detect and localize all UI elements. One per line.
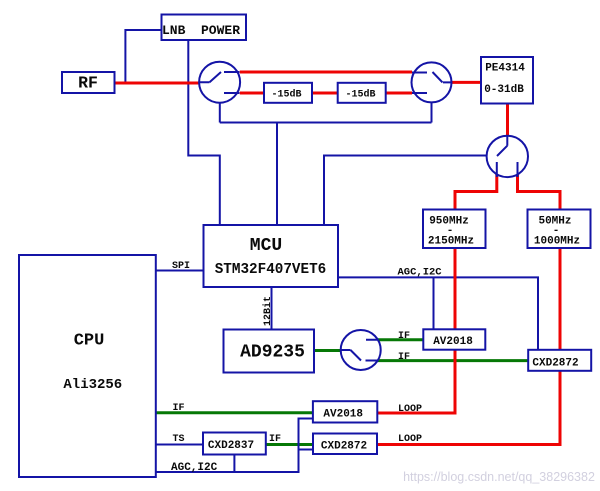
svg-text:AGC,I2C: AGC,I2C xyxy=(398,267,443,279)
svg-text:IF: IF xyxy=(398,352,410,363)
svg-text:-15dB: -15dB xyxy=(271,89,301,101)
wire AGC,I2C CPU to CXD2837, AV2018 and CXD2872 xyxy=(156,419,313,473)
block CPU Ali3256 xyxy=(19,255,156,477)
wire SW1 to SW2 direct path (red) xyxy=(240,71,412,74)
svg-text:LOOP: LOOP xyxy=(398,434,422,445)
svg-text:AV2018: AV2018 xyxy=(323,408,363,420)
svg-text:RF: RF xyxy=(78,74,98,93)
wire IF CXD2837 to CXD2872 (green) xyxy=(266,443,313,446)
block LNB POWER xyxy=(162,15,247,41)
wire AGC,I2C MCU to AV2018 and CXD2872 xyxy=(338,277,538,349)
svg-text:IF: IF xyxy=(269,434,281,445)
wire RF input (red) xyxy=(114,82,201,85)
svg-text:CXD2872: CXD2872 xyxy=(532,357,578,369)
filter 950MHz-2150MHz xyxy=(423,210,486,249)
wire control bus to MCU top pin xyxy=(276,123,278,226)
block PE4314 0-31dB attenuator xyxy=(481,57,533,104)
wire MCU to switch SW3 control xyxy=(324,156,487,226)
svg-text:Ali3256: Ali3256 xyxy=(63,377,122,393)
svg-text:IF: IF xyxy=(398,331,410,342)
wire IF CPU to AV2018 (green) xyxy=(156,411,313,414)
svg-text:CXD2837: CXD2837 xyxy=(208,440,254,452)
svg-text:STM32F407VET6: STM32F407VET6 xyxy=(215,262,327,278)
svg-text:TS: TS xyxy=(173,434,185,445)
svg-text:PE4314: PE4314 xyxy=(485,63,525,75)
switch SW4 (IF select) xyxy=(341,330,381,370)
svg-text:https://blog.csdn.net/qq_38296: https://blog.csdn.net/qq_38296382 xyxy=(403,470,595,484)
switch SW3 (band select) xyxy=(487,136,528,177)
svg-text:MCU: MCU xyxy=(250,236,282,256)
wire switch SW1 bottom to control bus xyxy=(219,103,221,123)
wire AD9235 to SW4 (green) xyxy=(314,349,342,352)
block RF xyxy=(62,72,115,93)
wire SW3 to 950MHz filter to AV2018 LOOP (red) xyxy=(377,172,497,413)
tuner CXD2872 upper xyxy=(528,350,591,371)
svg-text:IF: IF xyxy=(173,403,185,414)
tuner CXD2872 lower xyxy=(313,434,377,455)
switch SW1 (RF path select) xyxy=(199,62,240,103)
wire 12Bit MCU to AD9235 xyxy=(271,287,273,330)
block MCU STM32F407VET6 xyxy=(204,225,339,287)
filter 50MHz-1000MHz xyxy=(528,210,591,249)
svg-text:AD9235: AD9235 xyxy=(240,343,305,363)
wire RF to LNB POWER xyxy=(125,30,161,83)
switch SW2 (RF path combine) xyxy=(412,62,452,102)
svg-text:2150MHz: 2150MHz xyxy=(428,235,474,247)
svg-text:LNB POWER: LNB POWER xyxy=(162,23,240,38)
svg-text:CXD2872: CXD2872 xyxy=(321,441,367,453)
wire TS CPU to CXD2837 xyxy=(156,444,203,446)
attenuator -15dB first xyxy=(264,83,312,103)
svg-text:12Bit: 12Bit xyxy=(262,296,274,326)
svg-text:LOOP: LOOP xyxy=(398,404,422,415)
svg-text:-15dB: -15dB xyxy=(345,89,375,101)
wire switch control bus horizontal xyxy=(220,122,432,124)
wire IF SW4 to CXD2872 (green) xyxy=(378,359,529,362)
tuner AV2018 lower xyxy=(313,401,377,422)
wire SW1 to attenuators to SW2 (red) xyxy=(240,92,412,95)
wire LNB POWER to MCU top pin xyxy=(188,40,220,225)
tuner AV2018 upper xyxy=(423,329,485,349)
svg-text:CPU: CPU xyxy=(74,332,105,351)
svg-text:1000MHz: 1000MHz xyxy=(534,235,580,247)
svg-text:AGC,I2C: AGC,I2C xyxy=(171,462,218,474)
wire SPI CPU to MCU xyxy=(156,270,204,272)
wire SW3 to 50MHz filter to CXD2872 LOOP (red) xyxy=(377,172,560,445)
svg-text:0-31dB: 0-31dB xyxy=(484,84,524,96)
attenuator -15dB second xyxy=(338,83,386,103)
demodulator CXD2837 xyxy=(203,433,266,455)
wire PE4314 to SW3 (red) xyxy=(506,104,509,137)
wire switch SW2 bottom to control bus xyxy=(431,102,433,122)
svg-text:AV2018: AV2018 xyxy=(433,336,473,348)
wire SW2 to PE4314 (red) xyxy=(452,81,482,84)
wire IF SW4 to AV2018 (green) xyxy=(377,338,423,341)
svg-text:SPI: SPI xyxy=(172,261,190,272)
block AD9235 ADC xyxy=(224,330,315,373)
